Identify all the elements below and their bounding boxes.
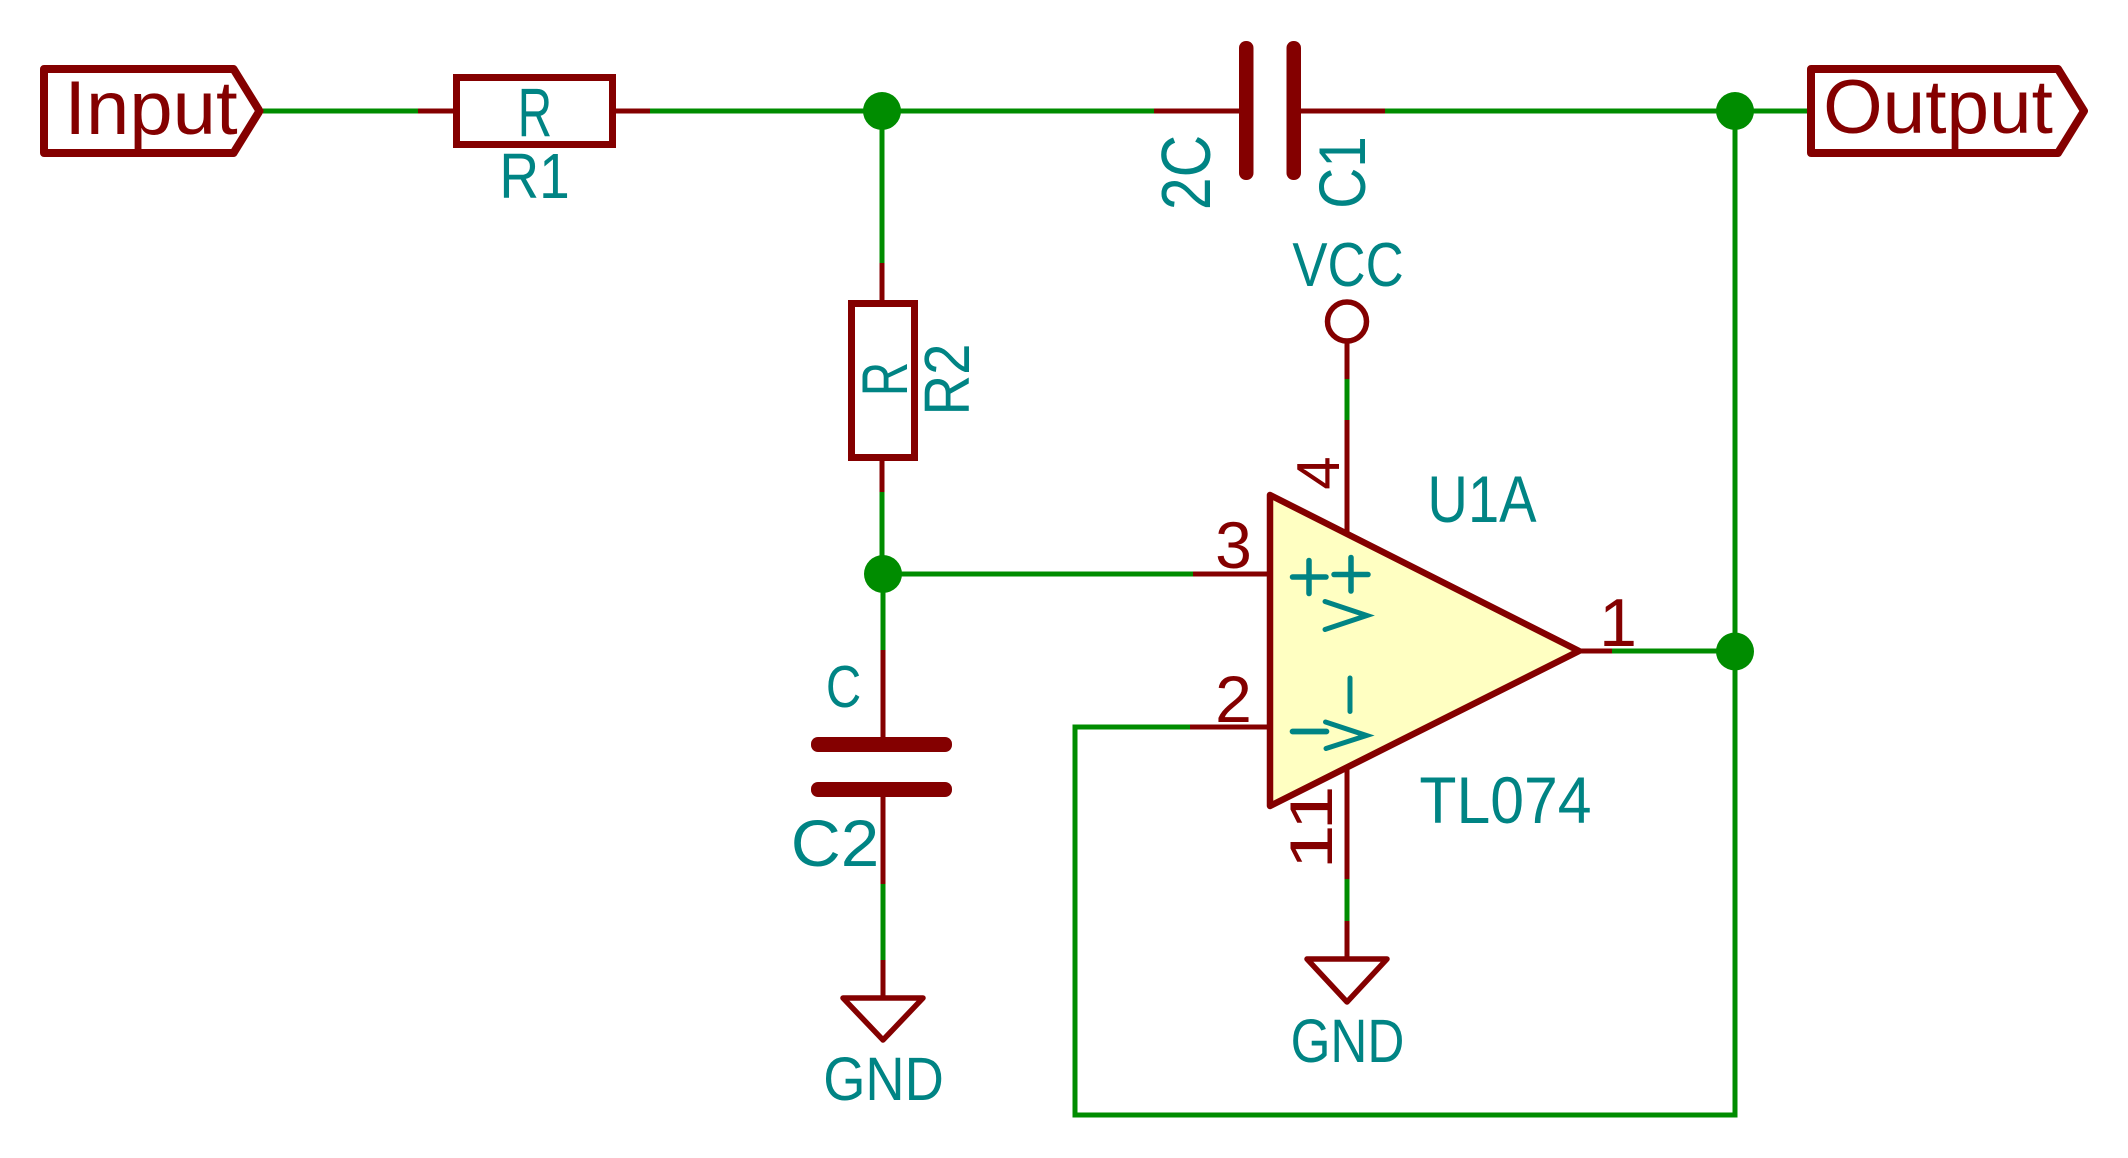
wire VCC to pin 4 <box>1345 377 1350 421</box>
svg-text:Input: Input <box>64 67 237 151</box>
wire Input to R1 <box>263 109 420 114</box>
ground symbol below C2 triangle <box>843 998 923 1040</box>
svg-text:R2: R2 <box>911 344 983 416</box>
op-amp pin 1 line <box>1579 649 1612 654</box>
op-amp pin 3 plus marker <box>1293 561 1327 594</box>
capacitor C1 pin left <box>1154 109 1240 114</box>
op-amp pin 2 line <box>1190 725 1270 730</box>
capacitor C2 pin bottom <box>881 796 886 884</box>
svg-text:R1: R1 <box>499 140 569 212</box>
wire node C down to C2 <box>881 574 886 651</box>
junction node C <box>864 555 902 593</box>
capacitor C1 pin right <box>1300 109 1385 114</box>
VCC power symbol stub <box>1345 343 1350 379</box>
ground symbol below C2 stub <box>881 960 886 998</box>
wire pin 11 to GND <box>1345 878 1350 922</box>
resistor R2 pin bottom <box>880 458 885 492</box>
capacitor C2 pin top <box>881 650 886 738</box>
op-amp pin 3 line <box>1193 572 1270 577</box>
resistor R1 pin left <box>418 109 456 114</box>
op-amp V+ label rotated <box>1325 558 1368 630</box>
svg-text:C1: C1 <box>1306 136 1380 209</box>
op-amp pin 4 line <box>1345 420 1350 534</box>
svg-text:U1A: U1A <box>1427 463 1536 536</box>
op-amp U1 triangle body <box>1270 495 1579 806</box>
svg-text:4: 4 <box>1285 456 1352 489</box>
svg-text:C: C <box>826 655 861 720</box>
resistor R1 pin right <box>613 109 650 114</box>
svg-text:VCC: VCC <box>1292 231 1403 300</box>
svg-text:C2: C2 <box>791 807 880 880</box>
capacitor C2 plate top <box>811 737 952 752</box>
junction node A <box>863 92 901 130</box>
hierarchical label Output shape <box>1811 69 2084 153</box>
svg-text:1: 1 <box>1599 585 1637 661</box>
svg-text:GND: GND <box>1291 1007 1405 1075</box>
svg-text:3: 3 <box>1215 508 1252 582</box>
op-amp pin 11 line <box>1345 768 1350 879</box>
wire node A down to R2 <box>880 111 885 264</box>
resistor R2 pin top <box>880 263 885 304</box>
VCC power symbol circle <box>1328 302 1367 341</box>
feedback wire from pin 2 around to output node <box>1075 111 1735 1115</box>
wire pin 1 to node D <box>1611 649 1735 654</box>
capacitor C1 plate right <box>1287 41 1302 180</box>
op-amp V- label rotated <box>1326 678 1367 749</box>
junction node D <box>1716 633 1754 671</box>
wire C1 to Output <box>1384 109 1809 114</box>
svg-text:11: 11 <box>1278 785 1345 869</box>
hierarchical label Input shape <box>44 69 260 153</box>
svg-text:Output: Output <box>1823 65 2053 150</box>
ground symbol below op-amp stub <box>1345 921 1350 959</box>
ground symbol below op-amp triangle <box>1307 959 1387 1002</box>
capacitor C2 plate bottom <box>811 782 952 797</box>
resistor R2 body <box>852 304 915 458</box>
wire R1 to C1 <box>649 109 1154 114</box>
op-amp pin 2 minus marker <box>1293 729 1327 735</box>
junction node B <box>1716 92 1754 130</box>
svg-text:GND: GND <box>823 1046 944 1114</box>
capacitor C1 plate left <box>1239 41 1254 180</box>
svg-text:2: 2 <box>1215 662 1252 736</box>
wire C2 to GND <box>881 883 886 961</box>
wire node C to op-amp pin 3 <box>882 572 1193 577</box>
svg-text:TL074: TL074 <box>1419 765 1591 838</box>
svg-text:2C: 2C <box>1146 135 1225 210</box>
wire R2 to node C <box>880 491 885 574</box>
resistor R1 body <box>457 78 613 145</box>
